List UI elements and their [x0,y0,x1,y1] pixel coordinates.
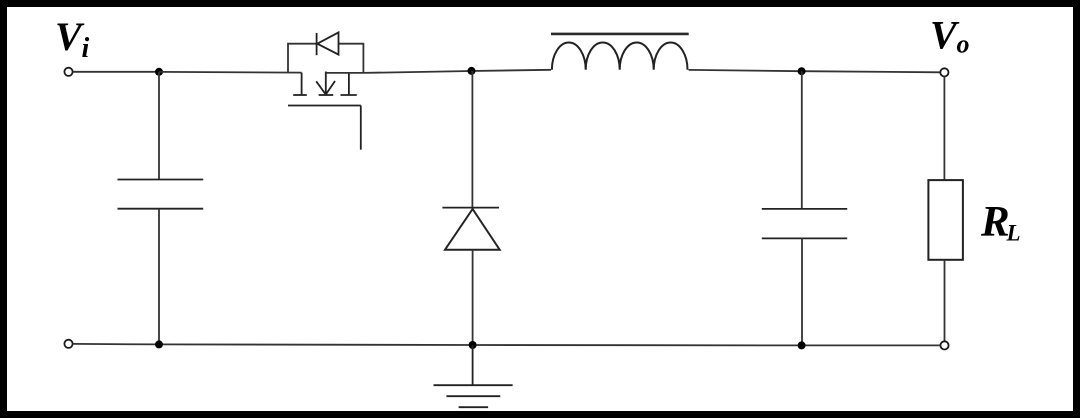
svg-text:V: V [930,13,960,58]
output terminal Vo+ [940,68,948,76]
wire inductor to node C [689,70,941,72]
label RL [980,198,1021,245]
svg-text:o: o [957,30,970,59]
resistor RL bottom lead [944,260,946,342]
drain lead [301,73,303,95]
svg-text:i: i [82,33,90,64]
node C [798,67,806,75]
capacitor Cin [118,180,204,209]
label Vi [55,14,90,64]
capacitor Cin top lead [158,72,160,180]
node D [155,340,163,348]
channel segment source [341,94,357,96]
resistor RL top lead [943,77,945,181]
capacitor Cout top lead [801,71,803,209]
body diode loop wire [288,44,363,73]
diode D1 [442,208,499,250]
capacitor Cout [762,209,847,239]
capacitor Cin bottom lead [158,209,160,345]
input terminal Vi+ [64,68,72,76]
diode D1 anode-cathode lead [471,71,473,208]
ground [434,345,513,407]
source lead [348,73,350,95]
input terminal Vi- [64,340,72,348]
node B [468,67,476,75]
node E [469,341,477,349]
bottom rail wire [73,344,941,346]
node F [798,341,806,349]
channel segment middle [319,94,334,96]
transistor Q1 (MOSFET) [288,72,361,150]
svg-text:V: V [55,14,85,59]
label Vo [930,13,970,59]
resistor RL [928,180,963,260]
node A [155,68,163,76]
wire input to node A [73,71,159,73]
inductor L1 winding [552,42,688,69]
gate plate [288,105,361,107]
body diode D2 [317,32,339,55]
svg-text:R: R [980,198,1010,245]
wire node A to transistor drain [159,71,302,74]
wire source to node B [326,70,551,73]
diode D1 bottom lead [472,250,474,345]
output terminal Vo- [940,341,948,349]
gate lead [360,106,362,150]
channel segment drain [293,94,307,96]
substrate arrow [316,72,335,95]
inductor L1 core bar [551,33,689,36]
svg-text:L: L [1006,220,1021,245]
capacitor Cout bottom lead [801,238,803,345]
